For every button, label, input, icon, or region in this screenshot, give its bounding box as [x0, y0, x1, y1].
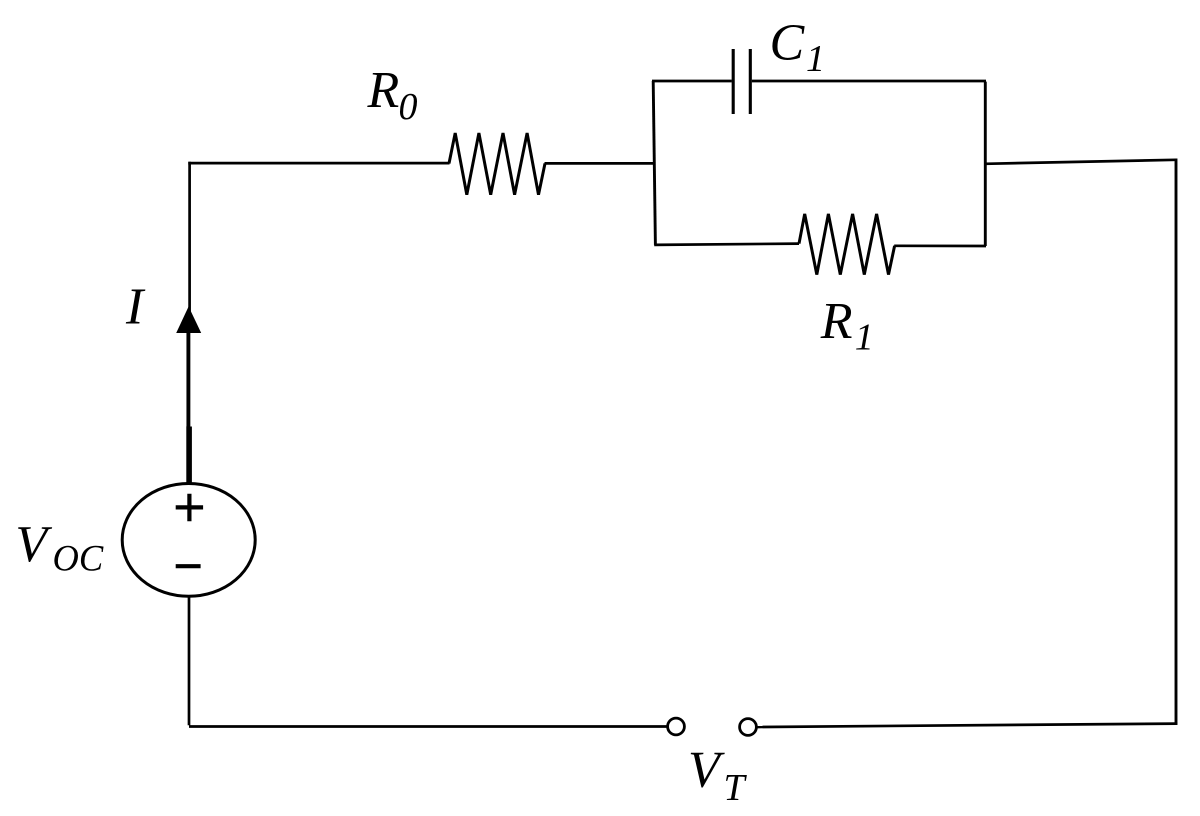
svg-text:V: V: [15, 516, 52, 573]
wire from parallel block to top-right corner: [985, 160, 1176, 164]
wire: bottom branch right segment from R1: [894, 244, 986, 247]
wire: parallel block right vertical: [984, 82, 987, 246]
svg-text:1: 1: [855, 316, 874, 358]
label VT: [688, 742, 748, 810]
wire: top branch right segment from capacitor: [752, 80, 986, 83]
wire: bottom branch left segment to R1: [654, 244, 799, 245]
svg-text:I: I: [125, 279, 146, 336]
label R0: [367, 62, 418, 128]
wire: top branch left segment to capacitor: [652, 80, 732, 83]
wire: parallel block left vertical: [653, 81, 655, 245]
wire from R0 to parallel block: [545, 162, 655, 165]
svg-text:1: 1: [806, 38, 825, 80]
current arrow shaft: [186, 330, 190, 427]
svg-text:OC: OC: [53, 538, 104, 579]
svg-text:V: V: [688, 742, 725, 799]
voltage source U1 circle: [122, 484, 255, 597]
wire: thick lead into top of voltage source: [186, 427, 192, 486]
svg-text:R: R: [820, 293, 853, 350]
terminal node circle (left): [668, 718, 685, 735]
wire: bottom right segment to right terminal: [758, 724, 1178, 727]
terminal node circle (right): [740, 719, 757, 736]
current arrow head: [176, 307, 201, 334]
svg-text:C: C: [770, 15, 806, 72]
wire: left vertical segment from top-left corner down to current arrow: [188, 162, 191, 312]
voltage source minus sign: [176, 564, 201, 568]
wire: below voltage source to bottom-left corner: [189, 596, 667, 727]
svg-text:0: 0: [399, 86, 418, 128]
capacitor C1: [733, 49, 750, 114]
resistor R0: [449, 133, 545, 195]
svg-text:T: T: [724, 767, 748, 809]
svg-text:R: R: [367, 62, 400, 119]
label VOC: [15, 516, 103, 579]
wire: right vertical side: [1175, 159, 1178, 725]
label R1: [820, 293, 874, 359]
resistor R1: [799, 214, 895, 275]
label C1: [770, 15, 826, 81]
voltage source plus sign: [176, 494, 203, 522]
top wire from top-left corner to R0: [188, 162, 449, 165]
